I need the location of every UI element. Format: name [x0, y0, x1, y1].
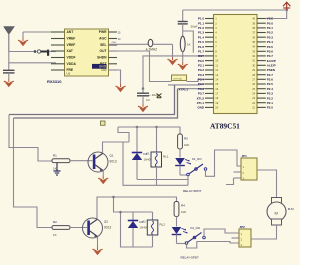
svg-text:P0.6: P0.6: [267, 49, 274, 53]
wire U2 DO to ground: [109, 70, 121, 84]
wire MCU RST to cap C3: [142, 56, 205, 93]
svg-text:XTAL1: XTAL1: [179, 87, 189, 91]
resistor R1: [52, 154, 70, 171]
wire XTAL row3: [178, 88, 206, 90]
wire Q1 emitter: [102, 171, 104, 177]
capacitor C2 30pF: [178, 10, 188, 37]
wire Q2 emitter: [97, 237, 99, 248]
svg-text:P0.2: P0.2: [267, 31, 274, 35]
svg-text:P2.7: P2.7: [267, 73, 274, 77]
svg-text:P1.4: P1.4: [198, 35, 205, 39]
svg-text:27: 27: [252, 77, 255, 81]
ground G8: [178, 62, 188, 70]
svg-text:12: 12: [215, 68, 218, 72]
svg-text:P0.5: P0.5: [267, 45, 274, 49]
label motor: [288, 207, 294, 211]
svg-text:PWR: PWR: [99, 30, 107, 34]
svg-text:P0.4: P0.4: [267, 40, 274, 44]
MCU U3 AT89C51: [197, 15, 276, 114]
svg-text:18: 18: [215, 96, 218, 100]
svg-text:23: 23: [252, 96, 255, 100]
crystal X1: [180, 36, 185, 62]
svg-text:SHDN: SHDN: [97, 56, 107, 60]
svg-text:25: 25: [252, 87, 255, 91]
svg-text:20: 20: [215, 106, 218, 110]
label RELAY1: [183, 189, 202, 193]
svg-text:P3.3: P3.3: [198, 73, 205, 77]
antenna: [4, 27, 15, 52]
svg-text:29: 29: [252, 68, 255, 72]
wire J1 to motor: [257, 170, 277, 198]
label Q2 9013: [104, 220, 111, 230]
relay switch SW1: [187, 164, 207, 176]
svg-text:ALE/P: ALE/P: [267, 64, 276, 68]
crystal Y1 4.7MHZ: [109, 39, 173, 46]
svg-text:P3.0: P3.0: [198, 59, 205, 63]
ground G7: [168, 57, 178, 65]
svg-text:10: 10: [215, 59, 218, 63]
wire motor to J2: [251, 225, 277, 239]
net mark: [157, 94, 162, 98]
label 10uF: [146, 93, 159, 102]
diode D2 1N4007: [128, 212, 138, 247]
label D2 1N4007: [140, 220, 151, 230]
LED D3: [175, 149, 191, 175]
svg-text:28: 28: [252, 73, 255, 77]
wire U2 row6: [9, 52, 56, 63]
net junction box: [101, 121, 106, 125]
wire XTAL row to MCU pin14: [187, 79, 206, 81]
svg-text:P2.2: P2.2: [267, 96, 274, 100]
svg-text:P1.1: P1.1: [198, 21, 205, 25]
svg-text:P0.0: P0.0: [267, 21, 274, 25]
svg-text:30pF: 30pF: [191, 25, 198, 29]
svg-text:AT89C51: AT89C51: [210, 122, 240, 131]
wire channel2 bottom rail: [119, 211, 152, 247]
label SW2 contacts: [191, 226, 201, 230]
svg-text:P3.1: P3.1: [198, 64, 205, 68]
svg-text:JP1: JP1: [242, 154, 248, 158]
svg-text:XTL1: XTL1: [197, 101, 205, 105]
ground G2: [4, 79, 14, 87]
svg-text:P2.3: P2.3: [267, 92, 274, 96]
pin number marks: [112, 32, 122, 44]
svg-text:RX3310: RX3310: [47, 79, 62, 84]
svg-text:XTL2: XTL2: [197, 96, 205, 100]
label 30pF: [191, 25, 198, 29]
svg-text:VREF: VREF: [67, 37, 76, 41]
svg-text:RST: RST: [198, 54, 204, 58]
crystal component XT: [172, 75, 187, 81]
svg-text:P2.4: P2.4: [267, 87, 274, 91]
svg-text:AGC: AGC: [99, 37, 107, 41]
svg-text:GND: GND: [197, 106, 205, 110]
svg-text:P2.5: P2.5: [267, 82, 274, 86]
ground G3: [98, 176, 108, 184]
svg-text:P0.3: P0.3: [267, 35, 274, 39]
svg-text:P1.3: P1.3: [198, 31, 205, 35]
svg-text:DO: DO: [102, 68, 107, 72]
svg-text:P3.6: P3.6: [198, 87, 205, 91]
wire jack to U2 pin XAT: [49, 51, 56, 53]
svg-text:RL2: RL2: [160, 223, 166, 227]
wire bus line C: [118, 126, 180, 134]
svg-text:R3: R3: [184, 137, 188, 141]
svg-text:M: M: [275, 211, 278, 216]
svg-text:VCC: VCC: [267, 17, 274, 21]
svg-text:1K: 1K: [53, 167, 57, 171]
net label XTAL1: [179, 87, 189, 91]
svg-text:33: 33: [252, 49, 255, 53]
svg-text:P2.1: P2.1: [267, 101, 274, 105]
svg-text:11: 11: [215, 63, 218, 67]
label D1 1N4007: [144, 152, 155, 162]
svg-text:36: 36: [252, 35, 255, 39]
svg-text:P1.6: P1.6: [198, 45, 205, 49]
svg-text:RL1: RL1: [163, 155, 169, 159]
wire SW1 contact to connector J1: [206, 150, 242, 176]
label RL1: [147, 153, 169, 159]
relay coil RL1: [151, 127, 162, 185]
svg-text:37: 37: [252, 31, 255, 35]
svg-text:P0.1: P0.1: [267, 26, 274, 30]
svg-text:16: 16: [215, 87, 218, 91]
wire J2 middle stub: [232, 237, 240, 239]
label AT89C51: [210, 122, 240, 131]
svg-text:9013: 9013: [104, 226, 111, 230]
capacitor C1: [3, 63, 15, 79]
wire XTAL row2: [168, 83, 205, 86]
ground G1: [18, 32, 28, 46]
wire bus C left drop: [118, 127, 129, 142]
svg-text:P3.5: P3.5: [198, 82, 205, 86]
resistor R4: [174, 202, 186, 217]
svg-text:+ 10uF: + 10uF: [149, 93, 159, 97]
label SW1 contacts: [192, 157, 202, 161]
wire branch X1 top right: [183, 31, 194, 53]
wire antenna to jack: [9, 51, 34, 53]
svg-text:32: 32: [252, 54, 255, 58]
svg-text:P3.7: P3.7: [198, 92, 205, 96]
wire SW2 pivot down: [187, 242, 240, 249]
svg-text:CRYSTAL: CRYSTAL: [173, 78, 183, 81]
svg-text:P1.5: P1.5: [198, 40, 205, 44]
svg-text:VREF: VREF: [67, 43, 76, 47]
svg-text:RELAY-SPDT: RELAY-SPDT: [181, 255, 200, 259]
ground small blue: [54, 163, 61, 175]
svg-text:OUT: OUT: [100, 49, 107, 53]
wire LED to switch pivot 2: [177, 243, 186, 245]
svg-text:VDDA: VDDA: [67, 62, 77, 66]
svg-text:1K: 1K: [53, 233, 57, 237]
svg-text:P2.6: P2.6: [267, 78, 274, 82]
svg-text:ANT: ANT: [67, 30, 74, 34]
svg-text:R4: R4: [181, 204, 185, 208]
svg-text:P0.7: P0.7: [267, 54, 274, 58]
svg-text:P1.7: P1.7: [198, 49, 205, 53]
connector J1: [241, 154, 257, 181]
wire bus line B: [14, 89, 178, 118]
svg-text:9013: 9013: [110, 160, 117, 164]
wire Q2 collector: [97, 197, 177, 219]
svg-text:17: 17: [215, 91, 218, 95]
capacitor C3 10uF: [137, 93, 149, 104]
svg-text:Q1: Q1: [110, 154, 114, 158]
wire bus line A: [9, 85, 175, 115]
svg-text:RELAY-SPDT: RELAY-SPDT: [183, 189, 202, 193]
wire bus B left drop to R2: [14, 118, 53, 228]
svg-text:21: 21: [252, 106, 255, 110]
svg-text:30: 30: [252, 63, 255, 67]
svg-text:35: 35: [252, 40, 255, 44]
wire channel2 top rail: [112, 196, 152, 212]
wire U2 row1: [23, 31, 56, 33]
svg-text:K1_NO: K1_NO: [192, 157, 202, 161]
svg-text:10K: 10K: [184, 143, 189, 147]
svg-text:13: 13: [215, 73, 218, 77]
ground G5: [138, 104, 148, 112]
svg-text:P1.0: P1.0: [198, 17, 205, 21]
wire J1 stubs: [226, 172, 241, 185]
ground G4: [93, 247, 103, 255]
wire Y1 to ground G7: [172, 44, 174, 57]
relay switch SW2: [185, 233, 205, 245]
power VCC symbol: [283, 2, 290, 10]
svg-text:P3.4: P3.4: [198, 78, 205, 82]
svg-text:R1: R1: [53, 154, 57, 158]
motor M1: [267, 198, 286, 226]
svg-text:B-M: B-M: [288, 207, 294, 211]
svg-text:P1.2: P1.2: [198, 26, 205, 30]
label RX3310: [47, 79, 62, 84]
svg-text:PSEN: PSEN: [267, 68, 275, 72]
svg-text:14: 14: [215, 77, 218, 81]
svg-text:34: 34: [252, 45, 255, 49]
svg-text:19: 19: [215, 101, 218, 105]
label RELAY2: [181, 255, 200, 259]
label Q1 9013: [110, 154, 117, 164]
svg-text:38: 38: [252, 26, 255, 30]
svg-text:22: 22: [252, 101, 255, 105]
wire bus A left drop to R1: [9, 115, 52, 162]
svg-text:P2.0: P2.0: [267, 106, 274, 110]
svg-text:26: 26: [252, 82, 255, 86]
ground G6: [116, 84, 126, 92]
resistor R3: [178, 134, 190, 149]
wire SW2 contact to J2: [204, 229, 239, 236]
wire VCC rail top: [183, 9, 288, 19]
wire R1 to Q1 base: [70, 160, 93, 162]
transistor Q2 9013: [83, 218, 103, 238]
svg-text:XAT: XAT: [67, 49, 73, 53]
svg-text:31: 31: [252, 59, 255, 63]
svg-text:R2: R2: [53, 220, 57, 224]
svg-text:EA/VP: EA/VP: [267, 59, 276, 63]
svg-text:15: 15: [215, 82, 218, 86]
label X1: [187, 43, 191, 47]
wire Q1 collector loop: [103, 142, 189, 185]
label 4.7MHZ: [146, 48, 157, 52]
svg-text:JP2: JP2: [240, 225, 246, 229]
svg-text:1K: 1K: [187, 43, 191, 47]
transistor Q1 9013: [88, 152, 108, 172]
svg-text:Q2: Q2: [104, 220, 108, 224]
LED D4: [172, 217, 188, 244]
svg-text:K2_NO: K2_NO: [191, 226, 201, 230]
wire LED to switch pivot: [180, 174, 187, 176]
svg-text:P3.2: P3.2: [198, 68, 205, 72]
svg-text:40: 40: [252, 17, 255, 21]
label RL2: [143, 221, 166, 227]
svg-text:U1: U1: [67, 72, 71, 76]
diode D1 1N4007: [132, 127, 142, 180]
wire U2 XAT to crystal XT: [109, 51, 172, 82]
svg-text:C3: C3: [146, 98, 150, 102]
jack J3: [34, 50, 50, 56]
svg-text:10K: 10K: [181, 210, 186, 214]
svg-text:SEL: SEL: [100, 43, 106, 47]
wire R2 to Q2 base: [70, 227, 87, 229]
relay coil RL2: [147, 212, 158, 247]
connector J2: [239, 225, 251, 247]
svg-text:24: 24: [252, 91, 255, 95]
wire SW1 pivot down rail: [137, 176, 188, 186]
resistor R2: [52, 220, 70, 237]
svg-text:39: 39: [252, 21, 255, 25]
receiver IC U2 RX3310: [51, 29, 117, 76]
svg-text:VDDF: VDDF: [67, 56, 76, 60]
